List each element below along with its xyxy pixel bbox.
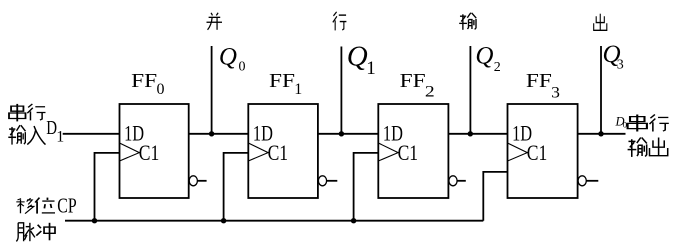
wire CP to FF2 C1 — [354, 153, 379, 221]
label 行 (serial-in line1) — [27, 104, 45, 120]
label 位 (shift CP line1) — [35, 198, 55, 214]
wire D1 input to FF0 — [63, 133, 120, 135]
wire Q0 riser — [211, 46, 213, 134]
junction Q3 node — [598, 131, 603, 136]
inverted output bubble FF3 — [578, 176, 586, 186]
junction Q1 node — [339, 131, 344, 136]
svg-text:2: 2 — [425, 84, 435, 101]
junction CP FF1 — [221, 218, 226, 223]
svg-text:FF: FF — [400, 70, 426, 92]
svg-text:C1: C1 — [139, 140, 160, 165]
clock edge triangle FF2 — [378, 143, 398, 161]
svg-text:Q: Q — [475, 43, 493, 70]
svg-text:C1: C1 — [527, 140, 548, 165]
svg-text:1: 1 — [366, 58, 376, 79]
clock edge triangle FF1 — [248, 143, 268, 161]
clock edge triangle FF3 — [508, 143, 528, 161]
svg-text:3: 3 — [551, 85, 560, 102]
label 入 (serial-in line2) — [27, 126, 45, 145]
wire FF1 Q to FF2 D — [318, 133, 378, 135]
svg-text:C1: C1 — [398, 140, 419, 165]
label 输 (serial-out line2) — [628, 138, 647, 157]
wire FF3 Q to serial output — [578, 133, 626, 135]
flip-flop FF0 box — [120, 104, 189, 198]
junction CP FF0 — [92, 218, 97, 223]
label 并 (top 1) — [206, 13, 221, 30]
svg-text:FF: FF — [269, 70, 295, 92]
label 脉 (pulse line2) — [16, 223, 35, 242]
label 行 (serial-out line1) — [650, 114, 669, 131]
inverted output bubble FF0 — [189, 176, 197, 186]
wire FF0 Q to FF1 D — [189, 133, 249, 135]
svg-text:Q: Q — [219, 43, 237, 70]
wire FF2 Q to FF3 D — [448, 133, 507, 135]
inverted output bubble FF1 — [318, 176, 326, 186]
label 移 (shift CP line1) — [16, 198, 34, 213]
wire CP to FF0 C1 — [95, 153, 120, 221]
flip-flop FF3 box — [508, 104, 578, 198]
flip-flop FF2 box — [378, 104, 448, 198]
label 输 (top 3) — [459, 13, 476, 30]
svg-text:FF: FF — [131, 70, 157, 92]
label 串 (serial-out line1) — [628, 115, 647, 132]
stub wire FF0 notQ — [197, 180, 206, 182]
wire CP to FF1 C1 — [224, 153, 249, 221]
wire CP bus — [65, 220, 483, 222]
svg-text:CP: CP — [57, 194, 76, 218]
label 冲 (pulse line2) — [36, 223, 55, 240]
clock edge triangle FF0 — [120, 143, 140, 161]
wire Q1 riser — [340, 47, 342, 134]
stub wire FF3 notQ — [586, 180, 598, 182]
svg-text:3: 3 — [617, 58, 624, 73]
label 行 (top 2) — [333, 12, 347, 31]
svg-text:1: 1 — [294, 81, 302, 98]
stub wire FF1 notQ — [327, 180, 338, 182]
label 出 (serial-out line2) — [650, 138, 668, 156]
junction Q0 node — [209, 131, 214, 136]
label 串 (serial-in line1) — [9, 104, 25, 122]
junction Q2 node — [468, 131, 473, 136]
svg-text:2: 2 — [494, 60, 501, 75]
svg-text:0: 0 — [239, 60, 246, 75]
flip-flop FF1 box — [248, 104, 318, 198]
stub wire FF2 notQ — [457, 180, 466, 182]
svg-text:1: 1 — [56, 129, 64, 146]
label 输 (serial-in line2) — [8, 125, 25, 144]
svg-text:0: 0 — [157, 81, 165, 98]
inverted output bubble FF2 — [449, 176, 457, 186]
label 出 (top 4) — [594, 14, 607, 31]
svg-text:C1: C1 — [268, 140, 289, 165]
svg-text:0: 0 — [623, 119, 627, 129]
wire Q2 riser — [469, 46, 471, 134]
svg-text:Q: Q — [347, 40, 368, 72]
wire Q3 riser — [600, 46, 602, 134]
junction CP FF2 — [351, 218, 356, 223]
svg-text:FF: FF — [526, 70, 552, 92]
wire CP to FF3 C1 — [483, 172, 507, 221]
